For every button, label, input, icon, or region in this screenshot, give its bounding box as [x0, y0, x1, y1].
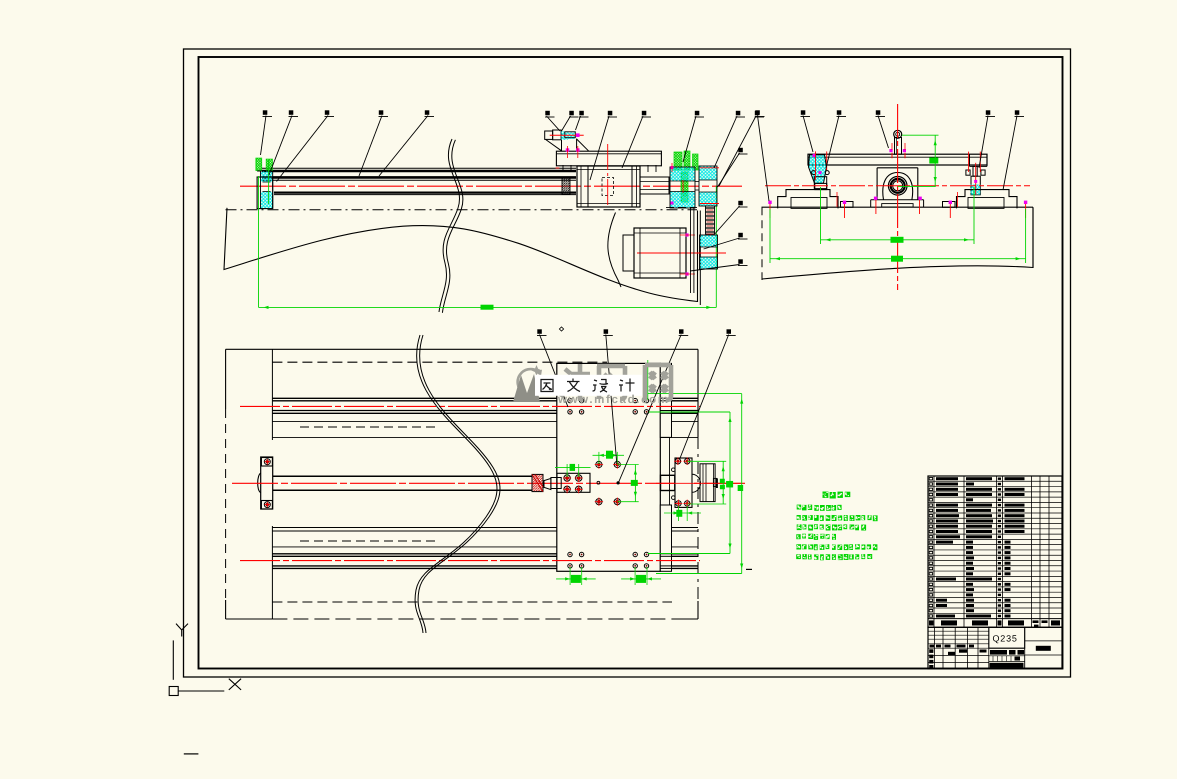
hidden line bottom: [272, 601, 672, 603]
coupling green seal: [684, 151, 690, 170]
plate end box bottom: [970, 165, 988, 167]
top rail centre line: [240, 405, 700, 407]
bolt vert dim: [634, 465, 636, 502]
right pillow nut a: [966, 170, 970, 175]
left pillow top dot: [813, 154, 816, 157]
nut flange bolt: [614, 461, 620, 467]
balloon 13: [755, 111, 765, 117]
svg-text:www.mfcad.com: www.mfcad.com: [557, 394, 668, 406]
balloon 17: [738, 259, 748, 265]
foot block a: [841, 202, 854, 208]
dim text 310: [891, 237, 904, 243]
top cylinder centre line: [550, 134, 584, 136]
gear block outline: [670, 167, 695, 208]
motor bolt dot bottom: [685, 272, 688, 275]
locknut red hatch: [532, 474, 543, 491]
collet block: [551, 478, 561, 489]
nut bolt d: [576, 486, 582, 492]
table bolt bottom row2: [568, 564, 572, 568]
material cell: [989, 627, 1025, 648]
lower coupling outline: [700, 235, 718, 269]
tech note line: [796, 544, 877, 550]
table bolt bottom row2: [579, 564, 583, 568]
overall dim vertical: [741, 394, 743, 574]
nut bolt b: [576, 475, 582, 481]
gear dot b: [671, 202, 674, 205]
tech note line: [797, 505, 842, 511]
parts list outline: [928, 476, 1062, 627]
right pillow red line b: [979, 152, 981, 172]
balloon 2: [289, 110, 299, 116]
pedestal spacing dimension: [821, 239, 975, 241]
table bolt bottom row: [568, 552, 572, 556]
gear cyan lower: [670, 192, 695, 209]
watermark glyph 1: [561, 364, 590, 401]
balloon 7: [569, 111, 579, 117]
tiny dash mark: [746, 568, 752, 570]
screw shaft line: [274, 192, 576, 194]
eye bolt shank: [895, 138, 902, 155]
watermark glyph 3: [645, 365, 671, 401]
break line S-curve 2: [442, 140, 463, 313]
balloon 27: [726, 329, 736, 335]
crescent arrow tip: [513, 374, 540, 402]
table bolt top row2: [633, 410, 637, 414]
balloon 18: [755, 110, 765, 116]
ext tick: [647, 360, 649, 400]
top cylinder magenta dot: [576, 133, 580, 137]
inner border frame: [199, 57, 1063, 669]
table bolt top row: [568, 398, 572, 402]
table bolt bottom row2: [633, 564, 637, 568]
right pillow red centre: [975, 163, 977, 195]
motor shaft stub plan: [661, 475, 675, 490]
plan pad bolt bottom: [264, 502, 270, 508]
hidden line top: [272, 361, 607, 363]
nut flange bolt: [614, 499, 620, 505]
motor mount plate line 2: [693, 208, 695, 293]
right pedestal inner: [968, 198, 1004, 209]
flange dim sq a: [720, 479, 725, 484]
UCS X axis: [178, 690, 224, 692]
bevel gear cyan lower: [699, 192, 717, 206]
extension line left: [258, 176, 260, 307]
foot block b: [943, 202, 956, 208]
lower coupling cyan upper: [700, 235, 718, 247]
plan right edge solid: [697, 349, 699, 437]
bolt spacing dim: [593, 454, 625, 456]
plan rail line lower: [272, 546, 698, 548]
plan right edge dashed: [697, 437, 699, 601]
hidden line rail 2: [300, 540, 440, 542]
bolt vert dim sq: [631, 480, 638, 486]
table bolt bottom row: [633, 552, 637, 556]
plan rail line: [272, 400, 698, 402]
balloon 26: [679, 329, 689, 335]
tech note line: [796, 554, 872, 560]
plan rail line lower: [272, 555, 698, 557]
right pillow dot: [974, 180, 977, 183]
left pillow post: [815, 183, 827, 189]
coupling dim sq: [676, 510, 682, 517]
base slab left break: [761, 207, 763, 280]
motor end cap: [623, 235, 634, 271]
extension line right: [715, 186, 717, 307]
base bolt dot: [1024, 201, 1027, 204]
green top link: [902, 134, 939, 136]
plan rail line lower: [272, 530, 698, 532]
plate end box right: [986, 154, 988, 166]
red tick left of housing: [556, 167, 560, 169]
gear red line top: [700, 167, 719, 169]
plan rail line lower: [272, 527, 698, 529]
plan right edge bottom: [697, 601, 699, 619]
nut dim sq: [570, 464, 576, 471]
bracket leg right: [576, 139, 578, 152]
centre plinth inner: [882, 204, 913, 207]
dim text width: [891, 256, 903, 262]
base inner edge upper: [271, 349, 273, 440]
height dimension line: [934, 135, 936, 187]
title block outline: [928, 627, 1062, 669]
right pedestal: [957, 190, 1018, 209]
table bolt bottom row: [644, 552, 648, 556]
table bolt bottom row: [579, 552, 583, 556]
coupling bolt: [675, 459, 680, 464]
plan bolt pad top: [261, 458, 272, 467]
hole pitch dim: [556, 578, 596, 580]
collet cone: [544, 478, 551, 489]
balloon 19: [801, 110, 811, 116]
plan break S-curve 2: [418, 335, 500, 633]
base bolt dot: [843, 201, 846, 204]
svg-text:Q235: Q235: [993, 634, 1018, 644]
coupling green seal: [693, 154, 699, 170]
bearing ball ring: [891, 179, 905, 193]
right pillow cyan: [971, 185, 981, 195]
left pedestal inner: [791, 198, 827, 209]
balloon 12: [736, 111, 746, 117]
watermark group: [513, 364, 671, 406]
bearing boss outline: [883, 173, 913, 200]
plan rail line lower: [272, 565, 698, 567]
eye bolt ring: [894, 130, 902, 138]
gearbox mounting plate: [556, 151, 661, 166]
coupling side bolt b: [672, 496, 676, 500]
extension line bearing: [268, 160, 270, 204]
table bolt top row2: [568, 410, 572, 414]
plate bolt dot: [566, 148, 569, 151]
plan bottom edge dashed: [272, 618, 672, 620]
material Q235: [989, 647, 1025, 649]
nut flange bolt: [596, 461, 602, 467]
left bearing green seal A: [256, 158, 262, 170]
bevel gear cyan upper: [699, 166, 717, 180]
balloon 11: [695, 111, 705, 117]
base bolt dot: [874, 197, 877, 200]
left bearing cyan upper: [261, 171, 273, 182]
end view horizontal centre line: [765, 185, 1030, 187]
guide rail top line: [262, 167, 576, 169]
screw end hatched: [562, 178, 570, 195]
plan view: top view of worktable: [226, 327, 752, 633]
plan pad bolt top: [264, 459, 270, 465]
gear cyan upper: [670, 167, 695, 181]
base slab bottom curve: [762, 266, 1033, 279]
base right edge 2: [699, 211, 701, 306]
right pillow centre bolt: [973, 166, 977, 176]
balloon 14: [738, 148, 748, 154]
left pillow box: [814, 177, 826, 189]
base hidden line: [226, 209, 698, 211]
UCS X letter: [229, 679, 241, 690]
table dim sq: [726, 481, 733, 488]
base slab top: [762, 206, 1034, 208]
right pillow red line a: [968, 152, 970, 172]
overall dim sq: [738, 485, 744, 491]
dim sq: [606, 451, 613, 459]
vertical lead screw threaded section: [706, 206, 715, 234]
end view top plate: [808, 154, 987, 165]
worktable plate fill: [557, 363, 661, 571]
guide rail band 2: [262, 176, 576, 179]
left pillow bolt a: [812, 171, 816, 175]
flange boss arc: [692, 474, 701, 492]
nut housing: [557, 473, 590, 492]
motor mount plate line: [690, 208, 692, 293]
base right edge: [697, 211, 699, 303]
table bolt top row: [644, 398, 648, 402]
left bearing cyan lower: [261, 192, 274, 209]
watermark glyph 2: [597, 366, 625, 399]
logo M: [531, 365, 542, 376]
balloon 1: [263, 110, 273, 116]
tech note line: [796, 534, 836, 540]
guide rail band 1: [262, 170, 576, 173]
balloon 20: [837, 110, 847, 116]
balloon 5: [425, 110, 435, 116]
bearing bore: [893, 181, 903, 191]
table bolt top row: [633, 398, 637, 402]
left pillow bolt b: [825, 171, 829, 175]
base slab right: [1032, 207, 1034, 268]
table bolt top row2: [644, 410, 648, 414]
balloon 24: [537, 329, 547, 335]
plan bolt pad bottom: [261, 501, 272, 510]
stud dot L: [889, 149, 892, 152]
balloon 6: [545, 111, 555, 117]
height dim text: [929, 158, 938, 164]
plan rail line: [272, 397, 698, 399]
left pillow red line: [815, 151, 817, 180]
base bolt dot: [949, 201, 952, 204]
plan left bearing plate: [261, 457, 273, 509]
logo crescent: [536, 370, 542, 377]
plate bolt dot 2: [576, 148, 579, 151]
lead screw centre line: [232, 482, 745, 484]
stepper motor body: [634, 228, 686, 278]
centre plinth: [871, 200, 924, 207]
top view: side elevation of linear stage: [224, 110, 742, 312]
green link line: [898, 185, 936, 187]
left bearing green seal B: [266, 159, 272, 171]
centre bearing housing: [877, 168, 918, 200]
coupling bolt: [685, 459, 690, 464]
watermark caption: [541, 380, 553, 392]
balloon 21: [876, 110, 886, 116]
bearing housing block: [577, 166, 640, 207]
plan rail line lower: [272, 567, 698, 569]
motor centre line: [637, 252, 726, 254]
flange dim sq b: [720, 485, 725, 490]
gear dot a: [671, 166, 674, 169]
right pillow post: [971, 176, 980, 195]
bracket leg left: [561, 140, 563, 151]
flange height dim: [722, 461, 724, 504]
balloon 4: [379, 110, 389, 116]
lead screw bottom line: [273, 489, 532, 491]
left pillow red line 2: [826, 151, 828, 170]
nut bolt c: [564, 486, 570, 492]
machine base profile curve: [224, 208, 698, 302]
balloon 8: [579, 111, 589, 117]
nut bolt a: [564, 475, 570, 481]
top cylinder left block: [545, 131, 553, 139]
plan bottom edge left: [226, 618, 273, 620]
coupling bolt: [685, 501, 690, 506]
coupling green seal: [674, 152, 682, 170]
pitch dim sq: [636, 575, 646, 583]
coupling green seal: [681, 172, 688, 202]
motor bolt dot top: [685, 233, 688, 236]
balloon 9: [608, 111, 618, 117]
UCS icon: [169, 624, 241, 754]
motor cavity arc: [608, 213, 621, 288]
top view middle: gearbox and motor: [545, 111, 764, 293]
bracket brace right: [577, 139, 589, 151]
balloon 10: [642, 111, 652, 117]
balloon 23: [1015, 110, 1025, 116]
end view vertical centre line: [897, 104, 899, 290]
bevel gear outline: [699, 166, 717, 206]
plan rail line: [272, 436, 698, 438]
top cylinder cyan 2: [568, 133, 575, 140]
watermark white box: [535, 375, 642, 396]
plan top edge: [226, 348, 698, 350]
left bearing housing: [257, 177, 273, 209]
bottom rail centre line: [240, 560, 700, 562]
break line S-curve: [439, 139, 460, 312]
left pedestal: [778, 190, 838, 209]
screw centre line red: [240, 185, 742, 187]
plan left edge dashed: [225, 409, 227, 600]
outer border frame: [184, 49, 1071, 677]
output shaft: [640, 177, 669, 194]
plan rail line: [272, 410, 698, 412]
plan rail line: [272, 412, 698, 414]
base bolt dot: [918, 197, 921, 200]
balloon 16: [738, 233, 748, 239]
end view: cross section elevation: [755, 104, 1033, 290]
gear red line bottom: [700, 203, 719, 205]
lead screw top line: [273, 475, 532, 477]
right pillow nut b: [981, 170, 985, 175]
nut dim line: [555, 467, 591, 469]
plan left edge solid: [225, 349, 227, 409]
coupling pitch dim: [664, 512, 701, 514]
base inner edge lower: [271, 526, 273, 619]
table bolt bottom row2: [644, 564, 648, 568]
guide rail line: [262, 179, 576, 181]
bearing outer ring: [888, 177, 907, 196]
balloon 22: [986, 110, 996, 116]
table dim vertical: [729, 412, 731, 554]
left pillow mid dot: [819, 171, 822, 174]
nut flange bolt: [596, 499, 602, 505]
UCS Y letter: [176, 624, 188, 637]
top cylinder rod: [565, 132, 576, 138]
stud dot R: [903, 149, 906, 152]
stray dash mark: [184, 753, 199, 755]
tech req title: [823, 492, 851, 499]
table flange upper: [660, 363, 671, 437]
overall length dimension: [259, 306, 717, 308]
coupling flange plan: [675, 458, 692, 507]
coupling disc pack: [700, 464, 715, 502]
hole pitch dim: [621, 578, 661, 580]
screw shaft line 2: [274, 194, 576, 196]
UCS Y axis: [172, 640, 174, 679]
top cylinder mid block: [553, 130, 562, 140]
coupling stub end: [713, 478, 717, 486]
balloon 3: [325, 110, 335, 116]
coupling side bolt a: [672, 468, 676, 472]
housing vertical centre line: [607, 144, 609, 206]
parts list and title block: [928, 476, 1062, 669]
tech note line: [797, 524, 866, 530]
top cylinder cyan: [561, 131, 568, 139]
tech note line: [797, 515, 878, 521]
plan rail line lower: [272, 553, 698, 555]
small hole a: [597, 481, 600, 484]
base width dimension: [770, 258, 1026, 260]
plate end box left: [969, 154, 971, 166]
dimension text 1685: [481, 305, 494, 310]
pitch dim sq: [571, 575, 581, 583]
balloon 15: [738, 201, 748, 207]
bracket brace left: [546, 139, 563, 151]
lower coupling cyan lower: [700, 257, 718, 269]
base bolt dot: [768, 201, 771, 204]
worktable plate: [557, 363, 661, 571]
balloon 25: [603, 329, 613, 335]
table bolt top row2: [579, 410, 583, 414]
table flange lower: [660, 505, 671, 571]
coupling bolt: [676, 501, 681, 506]
plan bottom edge right: [672, 618, 698, 620]
hidden line rail: [300, 426, 440, 428]
coupling end mark: [716, 479, 718, 489]
table bolt top row: [579, 398, 583, 402]
UCS origin box: [169, 687, 178, 696]
table flange mid: [669, 437, 671, 505]
plan rail line: [272, 421, 698, 423]
screw end cap: [258, 473, 261, 493]
plan break S-curve: [415, 335, 497, 633]
